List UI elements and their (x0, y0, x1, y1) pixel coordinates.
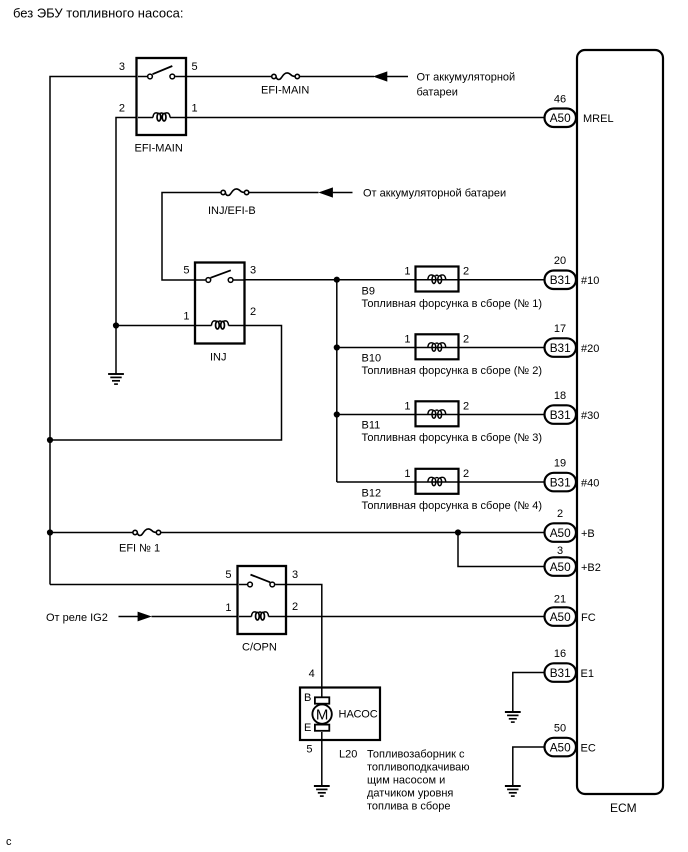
junction: injector bus node row 2 (334, 344, 340, 350)
switch contact C/OPN (239, 584, 247, 586)
svg-text:B31: B31 (550, 341, 571, 355)
svg-text:INJ/EFI-B: INJ/EFI-B (208, 205, 256, 217)
svg-text:#20: #20 (581, 343, 599, 355)
svg-text:1: 1 (404, 400, 410, 412)
svg-text:Топливная форсунка в сборе (№: Топливная форсунка в сборе (№ 4) (362, 500, 543, 512)
svg-text:EFI-MAIN: EFI-MAIN (135, 143, 183, 155)
svg-text:19: 19 (554, 457, 566, 469)
svg-text:c: c (6, 836, 12, 848)
wire: ECM E1 to ground (513, 673, 545, 713)
wire: injector row 3 to ECM #30 (337, 414, 545, 416)
svg-text:топливоподкачиваю: топливоподкачиваю (367, 762, 470, 774)
svg-text:EFI № 1: EFI № 1 (119, 543, 160, 555)
svg-text:НАСОС: НАСОС (339, 709, 378, 721)
junction: left rail node (47, 437, 53, 443)
connector A50 pin 50 net EC (545, 723, 596, 757)
coil B12 (428, 477, 446, 486)
fuel pump L20 (НАСОС) (300, 668, 380, 756)
svg-text:3: 3 (250, 265, 256, 277)
coil C/OPN (239, 616, 252, 618)
connector B31 pin 20 net #10 (545, 255, 600, 289)
wire: INJ relay pin 2 loop to left rail (50, 326, 282, 441)
coil B11 (428, 410, 446, 419)
svg-text:топлива в сборе: топлива в сборе (367, 801, 451, 813)
svg-text:1: 1 (192, 103, 198, 115)
connector A50 pin 3 net +B2 (545, 545, 601, 576)
svg-text:датчиком уровня: датчиком уровня (367, 788, 453, 800)
svg-text:Топливная форсунка в сборе (№: Топливная форсунка в сборе (№ 1) (362, 298, 543, 310)
svg-text:2: 2 (119, 103, 125, 115)
wire: INJ relay pin 1 to ground rail (116, 325, 195, 327)
junction: left rail at +B row (47, 529, 53, 535)
wire: ECM EC to ground (513, 747, 545, 786)
ground: EFI-MAIN relay coil return (108, 374, 124, 384)
svg-text:B10: B10 (362, 353, 382, 365)
svg-text:L20: L20 (339, 749, 357, 761)
svg-text:2: 2 (463, 400, 469, 412)
wire: injector bus vertical (336, 280, 338, 482)
svg-text:EC: EC (581, 742, 596, 754)
svg-text:20: 20 (554, 255, 566, 267)
svg-text:Топливная форсунка в сборе (№: Топливная форсунка в сборе (№ 3) (362, 432, 543, 444)
svg-text:INJ: INJ (210, 352, 227, 364)
svg-text:#40: #40 (581, 477, 599, 489)
wire: fuse EFI No.1 to ECM +B (161, 532, 545, 534)
svg-text:B31: B31 (550, 666, 571, 680)
svg-text:50: 50 (554, 723, 566, 735)
svg-text:17: 17 (554, 323, 566, 335)
label L20 description (339, 749, 470, 813)
terminal E (315, 725, 329, 731)
junction: +B / +B2 branch node (455, 529, 461, 535)
svg-text:M: M (316, 707, 329, 724)
wire: injector row 2 to ECM #20 (337, 347, 545, 349)
ground: fuel pump (314, 786, 330, 796)
coil B9 (428, 275, 446, 284)
svg-text:E: E (304, 722, 311, 734)
svg-text:Топливозаборник с: Топливозаборник с (367, 749, 465, 761)
svg-text:#30: #30 (581, 410, 599, 422)
arrow: from battery (От аккумуляторной батареи) (318, 187, 506, 199)
motor M (312, 704, 331, 723)
arrow: from battery (От аккумуляторной батареи) (373, 71, 515, 98)
svg-text:5: 5 (183, 265, 189, 277)
svg-text:2: 2 (557, 508, 563, 520)
ground: EC (505, 786, 521, 796)
svg-text:Топливная форсунка в сборе (№: Топливная форсунка в сборе (№ 2) (362, 365, 543, 377)
svg-text:3: 3 (557, 545, 563, 557)
svg-text:батареи: батареи (417, 87, 458, 99)
svg-text:5: 5 (306, 744, 312, 756)
svg-text:+B: +B (581, 528, 595, 540)
injector B12 (fuel injector assy no.4) (362, 468, 543, 512)
svg-text:3: 3 (119, 61, 125, 73)
wire: fuel pump to ground (321, 732, 323, 786)
svg-text:1: 1 (404, 333, 410, 345)
svg-text:EFI-MAIN: EFI-MAIN (261, 85, 309, 97)
svg-text:B12: B12 (362, 488, 382, 500)
svg-text:2: 2 (292, 601, 298, 613)
svg-text:1: 1 (183, 311, 189, 323)
svg-text:A50: A50 (550, 111, 571, 125)
svg-text:B31: B31 (550, 273, 571, 287)
svg-text:A50: A50 (550, 526, 571, 540)
svg-text:A50: A50 (550, 610, 571, 624)
connector A50 pin 2 net +B (545, 508, 595, 542)
svg-text:От аккумуляторной батареи: От аккумуляторной батареи (363, 188, 506, 200)
svg-text:От аккумуляторной: От аккумуляторной (417, 72, 516, 84)
svg-text:От реле IG2: От реле IG2 (46, 612, 108, 624)
wire: fuse EFI-MAIN to battery arrow (299, 76, 374, 78)
svg-text:щим насосом и: щим насосом и (367, 775, 445, 787)
svg-text:2: 2 (250, 306, 256, 318)
injector B10 (fuel injector assy no.2) (362, 333, 543, 377)
wire: injector row 4 to ECM #40 (337, 481, 545, 483)
connector A50 pin 21 net FC (545, 594, 596, 626)
connector B31 pin 19 net #40 (545, 457, 600, 491)
svg-text:21: 21 (554, 594, 566, 606)
wire: EFI-MAIN relay pin 1 to ECM MREL (186, 117, 545, 119)
svg-text:18: 18 (554, 390, 566, 402)
svg-text:ECM: ECM (610, 801, 637, 815)
wire: INJ relay pin 3 to injector bus and ECM #10 (245, 279, 545, 281)
switch contact INJ (196, 279, 205, 281)
injector B9 (fuel injector assy no.1) (362, 266, 543, 311)
relay EFI-MAIN (119, 58, 198, 155)
relay INJ (183, 263, 256, 364)
svg-text:16: 16 (554, 648, 566, 660)
svg-text:C/OPN: C/OPN (242, 642, 277, 654)
svg-text:A50: A50 (550, 740, 571, 754)
wire: EFI-MAIN relay pin 2 down to ground (116, 118, 137, 375)
wire: left rail to C/OPN relay pin 5 (50, 584, 238, 586)
svg-text:5: 5 (192, 61, 198, 73)
junction: ground rail node (113, 322, 119, 328)
wire: EFI-MAIN relay pin 5 to fuse EFI-MAIN (186, 76, 272, 78)
wire: INJ/EFI-B branch down to INJ relay pin 5 (162, 193, 221, 281)
svg-text:без ЭБУ топливного насоса:: без ЭБУ топливного насоса: (13, 6, 183, 21)
svg-text:3: 3 (292, 569, 298, 581)
coil B10 (428, 343, 446, 352)
junction: injector bus node row 3 (334, 411, 340, 417)
svg-text:2: 2 (463, 266, 469, 278)
fuse EFI No 1 (119, 529, 161, 555)
svg-text:MREL: MREL (583, 113, 614, 125)
svg-text:1: 1 (404, 266, 410, 278)
wire: EFI-MAIN relay pin 3 left and down to C/OPN pin 5 row (50, 77, 137, 585)
connector B31 pin 18 net #30 (545, 390, 600, 424)
junction: injector bus node row 1 (334, 277, 340, 283)
svg-text:B: B (304, 692, 311, 704)
svg-text:4: 4 (309, 668, 315, 680)
fuse EFI-MAIN (261, 73, 309, 97)
wire: branch to ECM +B2 (458, 533, 545, 567)
arrow: from IG2 relay (От реле IG2) (46, 612, 238, 624)
injector B11 (fuel injector assy no.3) (362, 400, 543, 444)
wire: C/OPN relay pin 3 down to fuel pump (286, 585, 322, 701)
svg-text:2: 2 (463, 333, 469, 345)
svg-text:1: 1 (404, 468, 410, 480)
svg-text:46: 46 (554, 94, 566, 106)
connector A50 pin 46 net MREL (545, 94, 614, 128)
coil EFI-MAIN (138, 117, 153, 119)
relay C/OPN (circuit opening relay) (225, 566, 298, 654)
svg-text:B31: B31 (550, 408, 571, 422)
fuse INJ/EFI-B (208, 189, 256, 217)
wire: left rail to fuse EFI No.1 (50, 532, 133, 534)
wire: fuse INJ/EFI-B to battery arrow (249, 192, 319, 194)
coil INJ (196, 325, 212, 327)
svg-text:#10: #10 (581, 275, 599, 287)
svg-text:5: 5 (225, 569, 231, 581)
svg-text:B31: B31 (550, 475, 571, 489)
svg-text:+B2: +B2 (581, 562, 601, 574)
connector B31 pin 17 net #20 (545, 323, 600, 357)
svg-text:A50: A50 (550, 560, 571, 574)
svg-text:1: 1 (225, 602, 231, 614)
ECM U1 box (577, 50, 663, 815)
switch contact EFI-MAIN (138, 76, 147, 78)
connector B31 pin 16 net E1 (545, 648, 594, 682)
ground: E1 (505, 712, 521, 722)
wire: C/OPN relay pin 2 to ECM FC (286, 616, 545, 618)
svg-text:2: 2 (463, 468, 469, 480)
svg-text:FC: FC (581, 612, 596, 624)
svg-text:B11: B11 (362, 420, 381, 432)
svg-text:E1: E1 (581, 668, 594, 680)
svg-text:B9: B9 (362, 286, 375, 298)
